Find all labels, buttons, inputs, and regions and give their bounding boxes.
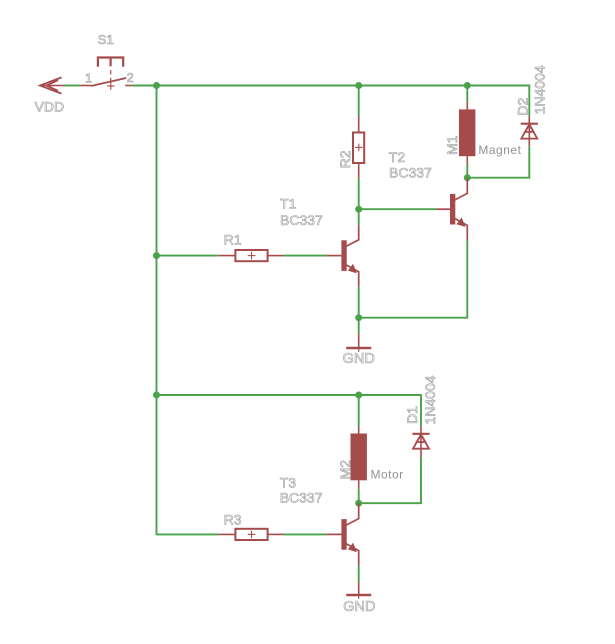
svg-text:T1: T1 (280, 195, 297, 211)
wire R1 net left (157, 255, 219, 257)
junction above M1 (464, 82, 471, 89)
svg-text:T3: T3 (280, 474, 297, 490)
wire R2 bottom (358, 179, 360, 209)
svg-text:2: 2 (127, 71, 134, 85)
power symbol VDD (40, 77, 64, 93)
resistor R3 (219, 529, 284, 540)
wire D1 top loop (359, 395, 421, 426)
svg-text:T2: T2 (389, 149, 406, 165)
svg-text:R1: R1 (224, 232, 242, 248)
wire T2 base net (359, 208, 437, 210)
wire D2 bottom loop (467, 146, 529, 178)
svg-text:1: 1 (85, 71, 92, 85)
junction M2 bottom / T3 collector (355, 500, 362, 507)
junction M1 bottom / T2 collector (464, 174, 471, 181)
svg-text:S1: S1 (98, 32, 114, 47)
svg-text:R2: R2 (337, 150, 353, 168)
diode D1 (412, 426, 429, 458)
svg-text:M1: M1 (444, 135, 460, 155)
svg-text:BC337: BC337 (280, 212, 323, 228)
svg-text:R3: R3 (224, 512, 242, 528)
svg-text:D1: D1 (404, 406, 420, 424)
junction above M2 (355, 392, 362, 399)
svg-text:1N4004: 1N4004 (531, 65, 547, 114)
svg-text:BC337: BC337 (389, 165, 432, 181)
wire left rail (157, 86, 219, 535)
wire T2 emitter (359, 240, 468, 317)
wire R1 to T1 (283, 255, 326, 257)
wire T1 emitter (358, 287, 360, 318)
wire VDD to S1 (64, 85, 80, 87)
svg-text:Motor: Motor (371, 467, 404, 481)
wire S1 to junction (131, 85, 156, 87)
wire T3 emitter (358, 566, 360, 582)
inductor M1 (459, 102, 475, 163)
svg-text:1N4004: 1N4004 (422, 375, 438, 424)
junction below R2 (355, 206, 362, 213)
wire M1 bottom (466, 163, 468, 177)
transistor T2 (436, 178, 467, 240)
switch S1 (80, 58, 131, 90)
ground GND1 (346, 333, 371, 352)
svg-text:VDD: VDD (35, 99, 65, 115)
svg-text:Magnet: Magnet (478, 143, 521, 157)
wire T1 collector (358, 209, 360, 224)
wire M1 top (466, 86, 468, 102)
wire R2 top (358, 86, 360, 117)
resistor R2 (353, 116, 364, 179)
svg-text:BC337: BC337 (280, 490, 323, 506)
ground GND2 (346, 582, 371, 599)
junction emitter row (355, 314, 362, 321)
svg-text:M2: M2 (337, 460, 353, 480)
transistor T1 (326, 225, 359, 287)
wire M2 top (358, 395, 360, 427)
inductor M2 (351, 427, 367, 489)
svg-text:GND: GND (343, 351, 375, 367)
wire top rail (157, 86, 530, 117)
diode D2 (521, 116, 538, 146)
wire to GND1 (358, 318, 360, 334)
svg-text:GND: GND (343, 599, 375, 615)
junction above R2 (355, 82, 362, 89)
svg-text:D2: D2 (514, 97, 530, 115)
junction left rail R1 (153, 252, 160, 259)
wire R3 to T3 (283, 533, 326, 535)
transistor T3 (326, 503, 359, 565)
junction left rail motor row (153, 392, 160, 399)
wire D1 bottom loop (359, 457, 421, 503)
wire motor rail (157, 394, 359, 396)
resistor R1 (219, 250, 284, 261)
wire M2 bottom (358, 489, 360, 503)
junction top-left (153, 82, 160, 89)
